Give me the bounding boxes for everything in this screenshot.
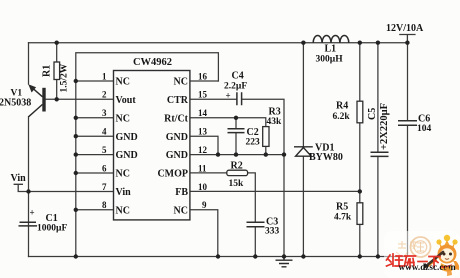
svg-text:8: 8 (102, 200, 107, 210)
svg-text:14: 14 (198, 108, 208, 118)
wire top rail (29, 42, 408, 44)
svg-text:Rt/Ct: Rt/Ct (164, 113, 189, 124)
svg-text:+: + (30, 208, 35, 218)
IC U1 CW4962 body (114, 71, 190, 220)
svg-text:13: 13 (198, 127, 208, 137)
svg-text:Vin: Vin (11, 173, 27, 184)
node bus pin5 (74, 152, 78, 156)
wire left emitter segment (28, 43, 30, 84)
wire C5 branch (377, 43, 379, 257)
node bus pin4 (74, 134, 78, 138)
node C2 top (234, 116, 238, 120)
svg-text:11: 11 (198, 163, 207, 173)
node gnd line end (282, 152, 286, 156)
watermark stamp (396, 237, 431, 257)
svg-text:NC: NC (116, 113, 130, 124)
svg-text:GND: GND (116, 150, 138, 161)
svg-text:CMOP: CMOP (157, 169, 188, 180)
watermark red swoosh (440, 264, 453, 269)
svg-text:6: 6 (102, 163, 107, 173)
node bottom pin9 (216, 254, 220, 258)
svg-text:2N5038: 2N5038 (0, 98, 31, 109)
svg-text:3: 3 (102, 108, 107, 118)
svg-text:5: 5 (102, 145, 107, 155)
node bus pin1 (74, 79, 78, 83)
svg-text:L1: L1 (325, 44, 337, 55)
wire pin12 gnd line (190, 154, 284, 156)
svg-text:4: 4 (102, 127, 107, 137)
wire pin7 Vin line (18, 191, 113, 193)
wire R2 to C3 drop (248, 173, 256, 257)
svg-text:NC: NC (116, 77, 130, 88)
svg-text:BYW80: BYW80 (309, 152, 343, 163)
wire bottom ground rail (29, 256, 408, 258)
wire pin15 to C4 (190, 98, 237, 100)
watermark haze (384, 231, 460, 278)
capacitor C5 (371, 152, 389, 156)
node FB divider (358, 189, 362, 193)
node output (405, 41, 409, 45)
capacitor C1 (19, 222, 38, 226)
wire pin14 Rt/Ct (190, 118, 266, 127)
node C5 top (376, 41, 380, 45)
svg-text:+: + (226, 91, 231, 101)
node bus pin6 (74, 171, 78, 175)
wire C2 stubs (235, 118, 237, 155)
svg-text:R4: R4 (336, 101, 348, 112)
node Vin junction (26, 189, 30, 193)
svg-text:2: 2 (102, 90, 107, 100)
output terminal 12V/10A (399, 35, 415, 43)
resistor R5 (357, 203, 363, 225)
node bus bottom (74, 254, 78, 258)
node bottom gnd (282, 254, 286, 258)
wire pin4 stub (76, 135, 114, 137)
resistor R4 (357, 101, 363, 123)
svg-text:10: 10 (198, 182, 208, 192)
wire pin3 stub (76, 117, 114, 119)
node base/R1 (55, 97, 59, 101)
svg-text:1: 1 (102, 71, 107, 81)
wire pin5 stub (76, 154, 114, 156)
svg-text:GND: GND (166, 150, 188, 161)
svg-text:Vout: Vout (116, 95, 137, 106)
node pin13/12 (216, 152, 220, 156)
node L1/VD1 (301, 41, 305, 45)
svg-text:R5: R5 (336, 202, 348, 213)
pin numbers (102, 71, 107, 210)
wire C4 to gnd drop (242, 99, 284, 256)
inductor L1 (313, 36, 349, 43)
node bus pin8 (74, 208, 78, 212)
watermark text weiku yixia (vector glyphs) (387, 254, 441, 267)
wire pin1 stub (76, 80, 114, 82)
svg-text:333: 333 (265, 227, 280, 237)
ground (276, 257, 293, 267)
wire base (pin 2 Vout) (46, 98, 114, 100)
svg-text:16: 16 (198, 71, 208, 81)
watermark mascot (423, 235, 459, 272)
node C2 bottom (234, 152, 238, 156)
svg-text:7: 7 (102, 182, 107, 192)
svg-text:NC: NC (116, 169, 130, 180)
wire pin9 elbow (190, 210, 218, 257)
node bottom C5 (376, 254, 380, 258)
svg-text:9: 9 (202, 200, 207, 210)
node bottom C3 (253, 254, 257, 258)
svg-text:C1: C1 (46, 213, 58, 224)
wire R3 bottom stub (265, 146, 267, 154)
transistor V1 (28, 84, 45, 117)
svg-text:15k: 15k (229, 179, 245, 189)
svg-text:43k: 43k (267, 117, 283, 127)
svg-text:NC: NC (174, 77, 188, 88)
svg-text:Vin: Vin (116, 187, 132, 198)
svg-text:1.5/2W: 1.5/2W (60, 63, 70, 92)
svg-text:C4: C4 (232, 71, 244, 82)
svg-text:1000µF: 1000µF (37, 224, 67, 234)
wire pin13 elbow (190, 136, 218, 154)
wire left input rail (28, 117, 30, 257)
svg-text:C2: C2 (247, 127, 259, 138)
svg-text:GND: GND (116, 132, 138, 143)
node bus pin3 (74, 116, 78, 120)
svg-text:104: 104 (417, 124, 432, 134)
svg-text:NC: NC (116, 205, 130, 216)
pin labels right (157, 77, 188, 217)
diode VD1 (294, 147, 313, 156)
svg-text:NC: NC (174, 205, 188, 216)
svg-text:FB: FB (175, 187, 188, 198)
wire pin16 stub (190, 80, 219, 82)
node R1 top (55, 41, 59, 45)
node R4 top (358, 41, 362, 45)
node bottom R5 (358, 254, 362, 258)
resistor R1 (54, 62, 60, 80)
svg-text:+2X220µF: +2X220µF (379, 103, 390, 150)
svg-text:CW4962: CW4962 (133, 57, 172, 68)
wire VD1 branch (302, 43, 304, 257)
svg-text:CTR: CTR (167, 95, 189, 106)
svg-text:GND: GND (166, 132, 188, 143)
wire gnd loop bus (76, 53, 219, 257)
capacitor C3 (247, 222, 265, 227)
svg-text:15: 15 (198, 90, 208, 100)
svg-text:300µH: 300µH (316, 55, 344, 65)
svg-text:R1: R1 (42, 65, 53, 77)
svg-text:6.2k: 6.2k (333, 112, 351, 122)
wire C6 branch (407, 43, 409, 257)
node R3 bottom (264, 152, 268, 156)
svg-text:12V/10A: 12V/10A (386, 23, 424, 34)
resistor R2 (227, 170, 248, 175)
watermark mascot foot (444, 267, 452, 276)
capacitor C6 (398, 121, 417, 125)
capacitor C2 (228, 129, 245, 133)
wire pin11 to R2 (190, 172, 227, 174)
wire R1 leads (56, 43, 58, 100)
input terminal Vin (14, 184, 23, 191)
wire pin6 stub (76, 172, 114, 174)
resistor R3 (263, 127, 269, 147)
svg-text:223: 223 (246, 138, 261, 148)
svg-text:4.7k: 4.7k (334, 213, 352, 223)
wire R4 R5 branch (359, 43, 361, 257)
capacitor C4 (237, 92, 242, 105)
svg-text:R2: R2 (231, 160, 243, 171)
svg-text:C6: C6 (418, 113, 430, 124)
wire pin10 FB line (190, 190, 360, 192)
svg-text:12: 12 (198, 145, 208, 155)
pin labels left (116, 77, 138, 217)
wire pin8 stub (76, 209, 114, 211)
svg-text:C5: C5 (367, 108, 378, 120)
node bottom VD1 (301, 254, 305, 258)
